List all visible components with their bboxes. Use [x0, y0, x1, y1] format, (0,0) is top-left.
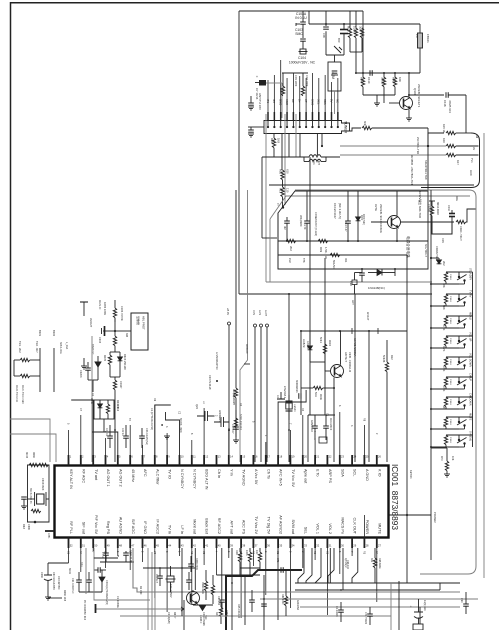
svg-text:C20 4R7: C20 4R7: [231, 424, 234, 434]
svg-text:8: 8: [156, 455, 158, 459]
IC pin 51 bottom stub: [80, 538, 82, 549]
svg-text:VT: VT: [304, 99, 308, 103]
svg-text:V2TE: V2TE: [374, 204, 378, 211]
svg-text:C1E4: C1E4: [449, 419, 451, 425]
svg-text:V-IN: V-IN: [252, 310, 255, 315]
svg-text:IF2: IF2: [272, 99, 276, 103]
V202 emitter wire: [396, 228, 398, 241]
svg-text:7: 7: [350, 551, 353, 553]
pin stub left bottom: [45, 530, 55, 532]
capacitor C243: [139, 436, 145, 438]
svg-text:C8: C8: [202, 551, 205, 555]
svg-text:10K: 10K: [255, 550, 258, 555]
wire IC top pin 6 up: [129, 425, 131, 455]
svg-text:5: 5: [251, 421, 254, 423]
IC pin 42 bottom stub: [191, 538, 193, 549]
node T junction: [282, 206, 284, 208]
svg-text:MUTE: MUTE: [469, 413, 473, 421]
svg-text:L/AB-M: L/AB-M: [302, 339, 305, 347]
wire d310 bottom: [88, 379, 98, 381]
svg-text:C381: C381: [47, 533, 49, 539]
svg-text:3: 3: [264, 551, 267, 553]
crystal tee: [277, 398, 285, 400]
gray bus dot: [427, 145, 429, 147]
svg-text:C303 0603: C303 0603: [41, 478, 44, 491]
svg-text:C7: C7: [79, 408, 82, 412]
keypad resistor R132 5K6: [444, 316, 447, 326]
tuner pin 12 stub: [337, 112, 339, 121]
svg-text:MEMORY: MEMORY: [232, 394, 235, 406]
diode D310 filled: [95, 362, 101, 367]
gray wire crystal to tuner: [334, 91, 336, 114]
wire L101 left: [262, 156, 309, 158]
svg-text:1: 1: [70, 455, 72, 459]
svg-text:R1: R1: [251, 551, 254, 555]
svg-text:MC/4 .TR3 4 K60: MC/4 .TR3 4 K60: [21, 385, 24, 404]
svg-text:49: 49: [107, 544, 110, 548]
svg-text:+: +: [410, 605, 412, 609]
keypad switch S203 VOL UP: [458, 336, 460, 340]
wire x322 drop to bus: [321, 134, 323, 147]
crystal X101 cap: [332, 71, 338, 73]
resistor R244: [234, 418, 237, 428]
ground C243: [164, 436, 170, 439]
svg-text:TV/AV: TV/AV: [469, 290, 473, 298]
svg-text:23: 23: [341, 455, 344, 459]
resistor R117 on gray wire: [446, 153, 456, 156]
svg-text:52: 52: [70, 544, 73, 548]
svg-text:30K,8R0F: 30K,8R0F: [299, 215, 303, 227]
svg-text:Y In: Y In: [229, 469, 233, 476]
wire x301 vertical: [300, 331, 302, 415]
svg-text:L1/E24: L1/E24: [293, 404, 296, 412]
wire long vertical x236: [235, 190, 237, 380]
emitter resistor R311: [313, 386, 323, 389]
resistor R106 below tuner: [272, 138, 275, 148]
svg-text:16: 16: [255, 455, 258, 459]
diode D103 diagonal: [334, 46, 341, 53]
resistor R302: [20, 374, 30, 377]
resistor R201 hang: [238, 552, 241, 562]
gray wire bottom y616: [120, 615, 391, 617]
wire mid rail y73: [357, 72, 420, 74]
gray wire left 2: [10, 434, 56, 462]
svg-text:MC/3: MC/3: [25, 452, 28, 459]
resistor branch R310: [324, 331, 326, 344]
svg-text:C104/C1047: C104/C1047: [333, 203, 337, 219]
transistor V202: [388, 216, 401, 229]
svg-text:2: 2: [141, 551, 144, 553]
tuner pin 5 wire up: [292, 73, 294, 112]
svg-text:R12: R12: [279, 188, 283, 194]
svg-text:C23 0.1/25 (NJ): C23 0.1/25 (NJ): [145, 428, 148, 445]
IC pin 50 bottom stub: [92, 538, 94, 549]
svg-text:TV Vss 2V: TV Vss 2V: [254, 516, 258, 534]
svg-text:T: T: [277, 203, 279, 207]
wire IC bottom pin 43 down: [179, 548, 181, 556]
svg-text:4.7K: 4.7K: [442, 325, 446, 331]
svg-text:7: 7: [144, 455, 146, 459]
svg-text:R12: R12: [390, 355, 393, 360]
svg-text:VOL 1: VOL 1: [316, 523, 320, 534]
IC pin 33 bottom stub: [302, 538, 304, 549]
gray wire bottom horizontal: [266, 281, 432, 283]
wire x428 riser to box A: [428, 133, 444, 191]
gray wire vert x152: [151, 552, 153, 630]
svg-text:3: 3: [350, 425, 353, 427]
ABL PROT box: [131, 313, 148, 350]
keypad cell bottom wire S205: [431, 388, 459, 390]
wire corner down to connector: [465, 95, 467, 133]
resistor R104 vertical: [361, 77, 364, 87]
tuner pin 4 wire up: [286, 78, 288, 112]
gray bus line y155: [340, 154, 446, 156]
svg-text:19: 19: [292, 455, 295, 459]
parallel R-D pair bottom: [110, 376, 120, 378]
bus wire y185: [269, 184, 474, 186]
svg-text:显像管: 显像管: [136, 316, 141, 325]
svg-text:C110: C110: [367, 77, 371, 84]
svg-text:SIF AGC: SIF AGC: [131, 519, 135, 534]
svg-text:R15 1K: R15 1K: [442, 124, 446, 133]
wire R122 corner to box B: [466, 209, 476, 222]
svg-text:3R12 4R18: 3R12 4R18: [436, 202, 439, 215]
svg-text:610: 610: [286, 169, 290, 174]
V301 collector wire: [340, 331, 342, 365]
wire crystal top: [334, 55, 336, 62]
svg-text:8: 8: [165, 551, 168, 553]
resistor R115 on top wire: [446, 131, 456, 134]
capacitor C280: [219, 600, 225, 602]
wire IC bottom pin 49 down: [105, 548, 107, 568]
svg-text:AG OUT 2: AG OUT 2: [118, 469, 122, 487]
wire IC bottom pin 39 down: [228, 548, 230, 558]
wire R104 tops: [282, 72, 308, 74]
wire bottom rail right half: [345, 268, 428, 270]
resistor R118 horizontal: [330, 253, 340, 256]
box C left edge: [261, 157, 263, 238]
wire IC bottom pin 29 down: [351, 548, 353, 556]
svg-text:C1: C1: [325, 551, 328, 555]
junction dot: [34, 521, 37, 524]
IC pin 46 bottom stub: [142, 538, 144, 549]
svg-text:C7 10/16: C7 10/16: [255, 88, 259, 100]
capacitor C241: [107, 436, 113, 438]
wire bus drops: [239, 568, 241, 576]
svg-text:BC246 . 3904: BC246 . 3904: [179, 418, 182, 433]
IC pin 43 bottom stub: [179, 538, 181, 549]
wire IC bottom pin 41 down: [203, 548, 205, 565]
wire bottom x245 down: [244, 576, 246, 625]
wire long vertical x289: [288, 294, 290, 462]
wire V202 base to sub resistor R122: [401, 221, 455, 223]
svg-text:BDG ALT IN: BDG ALT IN: [205, 469, 209, 490]
IC pin 11 top stub: [191, 455, 193, 466]
svg-text:R6C7: R6C7: [173, 612, 176, 619]
svg-text:C1E4: C1E4: [449, 296, 451, 302]
keypad cell bottom wire S207: [431, 428, 459, 430]
capacitor C265: [188, 564, 194, 566]
wire IC bottom pin 52 down: [68, 548, 70, 563]
svg-text:AVR-MBC2: AVR-MBC2: [329, 418, 332, 431]
svg-text:POWER: POWER: [433, 512, 437, 523]
wire IC top pin 2 up: [80, 415, 82, 455]
svg-text:B302: B302: [52, 330, 56, 337]
junction dots center band: [339, 330, 341, 332]
svg-text:R06: R06: [392, 77, 396, 83]
svg-text:T2: T2: [128, 418, 131, 421]
wire tuner left to box edge: [248, 126, 264, 128]
svg-text:C90: C90: [460, 598, 463, 603]
electrolytic cap C260: [44, 575, 52, 581]
wire resistor bottoms to gnd rail: [363, 94, 395, 96]
capacitor C103A: [300, 22, 306, 24]
svg-text:R11: R11: [279, 169, 283, 174]
svg-text:MACS Po: MACS Po: [340, 517, 344, 534]
svg-text:Reg PB: Reg PB: [106, 521, 110, 535]
tuner section box left edge: [238, 11, 240, 294]
capacitor C104 electrolytic: [300, 49, 306, 54]
svg-text:DK 10023: DK 10023: [335, 606, 338, 617]
svg-text:12: 12: [205, 455, 208, 459]
thick bus diagonal: [226, 570, 302, 630]
polar cap C128: [352, 280, 357, 285]
wire R270 top: [446, 448, 448, 455]
svg-text:43: 43: [181, 544, 184, 548]
svg-text:R263 360K: R263 360K: [201, 582, 204, 594]
svg-text:IF GND: IF GND: [143, 521, 147, 534]
svg-text:35: 35: [279, 544, 282, 548]
svg-text:LF In: LF In: [180, 525, 184, 534]
resistor R268: [373, 558, 376, 568]
tuner notch step wire: [350, 128, 362, 131]
wire R301 R302 left join: [13, 360, 15, 376]
keypad cell bottom wire S206: [431, 408, 459, 410]
wire x431 lower: [430, 505, 432, 560]
IC pin 45 bottom stub: [154, 538, 156, 549]
series cap C249: [98, 567, 100, 573]
wire x387 vertical with resistor: [386, 340, 388, 362]
gray bus line y146: [340, 145, 446, 147]
wire y605 rail: [193, 604, 213, 606]
svg-text:R0A: R0A: [235, 550, 238, 555]
svg-text:Ch In: Ch In: [217, 469, 221, 478]
resistor R382: [31, 509, 41, 512]
gray wire left col x92: [91, 336, 93, 462]
svg-text:IF1: IF1: [266, 99, 270, 103]
inductor L101: [309, 155, 321, 157]
IC pin 47 bottom stub: [129, 538, 131, 549]
svg-text:SEL: SEL: [303, 527, 307, 534]
svg-text:5: 5: [67, 423, 70, 425]
keypad cell bottom wire S200: [431, 283, 459, 285]
svg-text:5V: 5V: [329, 99, 333, 103]
svg-text:[NC 3.3R~5]: [NC 3.3R~5]: [338, 203, 342, 219]
wire IC top pin 4 up: [105, 438, 107, 455]
svg-text:9: 9: [288, 551, 291, 553]
svg-text:BK01: BK01: [68, 568, 71, 575]
tuner pin 11 wire up: [331, 82, 333, 112]
svg-text:100K: 100K: [353, 26, 357, 33]
tuner pin 9 wire up: [318, 78, 320, 112]
tuner pin 1 stub: [267, 112, 269, 121]
IC pin 37 bottom stub: [252, 538, 254, 549]
svg-text:IF AGC2: IF AGC2: [155, 519, 159, 534]
svg-text:2: 2: [215, 415, 218, 417]
antenna cap C101 to ground: [248, 103, 254, 105]
wire IC bottom pin 28 down: [363, 515, 365, 548]
svg-text:3K1: 3K1: [370, 558, 373, 563]
svg-text:Mont out: Mont out: [192, 519, 196, 535]
resistor R304: [113, 336, 116, 346]
svg-text:C1E4: C1E4: [449, 399, 451, 405]
svg-text:L_00A: L_00A: [65, 342, 68, 350]
svg-text:50K36: 50K36: [382, 355, 385, 363]
svg-text:AF AGND2: AF AGND2: [279, 515, 283, 534]
svg-text:A02/MB3: A02/MB3: [296, 600, 299, 611]
capacitor C270: [249, 600, 255, 602]
svg-text:C1E4: C1E4: [449, 379, 451, 385]
svg-text:R68A: R68A: [225, 610, 228, 616]
IC pin 21 top stub: [314, 455, 316, 466]
heavy capacitor C107: [343, 24, 345, 29]
capacitor C266: [186, 580, 192, 582]
stub black y609: [95, 604, 97, 613]
IC pin 52 bottom stub: [68, 538, 70, 549]
svg-text:A0B/MBC2: A0B/MBC2: [310, 420, 313, 432]
svg-text:R82 102F: R82 102F: [281, 594, 284, 605]
svg-text:C093 L TX1.T: C093 L TX1.T: [459, 226, 462, 241]
svg-text:JPG/RAB 1: JPG/RAB 1: [283, 386, 286, 399]
svg-text:N CYNBCY: N CYNBCY: [192, 469, 196, 489]
svg-text:0R60: 0R60: [32, 452, 35, 459]
wire rail y592: [79, 591, 102, 593]
ground R270: [444, 474, 450, 477]
gray box B outline: [295, 190, 476, 574]
wire osc top to pin: [48, 464, 50, 466]
keypad cell top wire S200: [446, 271, 473, 273]
capacitor C276: [338, 610, 344, 612]
wire link below IC y558: [94, 557, 118, 559]
svg-text:C260: C260: [40, 572, 43, 579]
wire x115 down to IC pin: [114, 400, 116, 462]
svg-text:SMC: SMC: [295, 32, 303, 36]
svg-text:R2: R2: [190, 551, 193, 555]
resistor R303: [113, 308, 116, 318]
svg-text:18: 18: [279, 455, 282, 459]
wire av vertical x255: [254, 327, 256, 462]
svg-text:RF AGC2: RF AGC2: [217, 518, 221, 534]
tuner pin 10 wire up: [324, 75, 326, 112]
svg-text:E To: E To: [316, 469, 320, 477]
keypad switch S208 S-MENU: [458, 435, 460, 439]
svg-text:R3: R3: [362, 551, 365, 555]
wire IC bottom pin 46 down: [142, 548, 144, 562]
resistor R240: [106, 404, 109, 414]
wire x278 down: [277, 548, 279, 620]
wire C103 down: [302, 41, 304, 49]
svg-text:C/0603: C/0603: [306, 341, 309, 349]
svg-text:1K07: 1K07: [279, 88, 283, 95]
keypad resistor R137 2K: [444, 417, 447, 427]
inductor L102: [309, 159, 321, 161]
svg-text:22: 22: [329, 455, 332, 459]
IC pin 18 top stub: [277, 455, 279, 466]
junction dot y24: [343, 23, 345, 25]
svg-text:N CYNBCY: N CYNBCY: [180, 469, 184, 489]
IC pin 15 top stub: [240, 455, 242, 466]
svg-text:KEY/IN: KEY/IN: [409, 470, 413, 479]
crystal box X101: [328, 62, 341, 91]
resistor R114 horizontal: [318, 239, 328, 242]
svg-text:C74 Y0023: C74 Y0023: [364, 612, 367, 625]
svg-text:5: 5: [338, 551, 341, 553]
svg-text:3K6.5: 3K6.5: [381, 77, 385, 85]
wire top pin h-link 3: [278, 390, 306, 455]
capacitor C283: [261, 604, 267, 606]
gray wire left 1: [10, 419, 50, 462]
wire FB down to rail: [419, 48, 421, 73]
capacitor C121: [284, 221, 290, 223]
wire top pin h-link 1: [71, 400, 93, 455]
svg-text:C945 . C2060A-M: C945 . C2060A-M: [348, 352, 351, 372]
svg-text:S06 1.00A: S06 1.00A: [59, 342, 62, 354]
wire IC top pin 23 up: [339, 412, 341, 455]
svg-text:A30TE-Y: A30TE-Y: [344, 352, 347, 362]
rail ticks: [351, 328, 353, 334]
wire C103A down: [302, 24, 304, 38]
wire vertical x54: [53, 348, 55, 392]
svg-text:A GND: A GND: [365, 469, 369, 481]
wire IC bottom pin 42 down: [191, 548, 193, 604]
sub resistor R121: [429, 200, 435, 202]
svg-text:AU AGND: AU AGND: [118, 517, 122, 534]
page border top: [10, 2, 499, 4]
svg-text:6: 6: [227, 551, 230, 553]
capacitor C106 series: [325, 11, 327, 26]
svg-text:MENU: MENU: [469, 312, 473, 320]
svg-text:3R: 3R: [283, 226, 287, 230]
wire av vertical x267: [266, 327, 268, 462]
keypad cell top wire S206: [446, 396, 473, 398]
svg-text:C60 100UF/25V: C60 100UF/25V: [52, 572, 55, 590]
cap tee top: [80, 301, 88, 303]
wire L102 ends: [304, 161, 309, 163]
svg-text:5: 5: [116, 551, 119, 553]
svg-text:15: 15: [242, 455, 245, 459]
wire av vertical x261: [260, 327, 262, 462]
wire x232 down: [231, 548, 233, 630]
capacitor C118: [446, 92, 448, 98]
electrolytic cap C264: [167, 576, 174, 582]
resistor R102: [354, 28, 357, 38]
svg-text:0.1U: 0.1U: [80, 562, 83, 567]
svg-text:DK5: DK5: [441, 238, 444, 243]
oscillator loop left of IC: [28, 465, 50, 522]
svg-text:KEY ALT IN: KEY ALT IN: [69, 469, 73, 489]
tuner pin 2 wire up: [273, 75, 275, 112]
tuner pin 8 stub: [311, 112, 313, 121]
svg-text:C71: C71: [276, 558, 279, 563]
resistor R301: [20, 358, 30, 361]
svg-text:9R06: 9R06: [319, 394, 322, 400]
zener branch VD310: [309, 331, 311, 344]
wire keypad to POWER pin: [364, 514, 431, 516]
svg-text:C1E4: C1E4: [449, 359, 451, 365]
svg-text:VOL DOWN: VOL DOWN: [469, 353, 473, 367]
IC pin 12 top stub: [203, 455, 205, 466]
svg-text:IC001 8873/8893: IC001 8873/8893: [390, 464, 400, 530]
